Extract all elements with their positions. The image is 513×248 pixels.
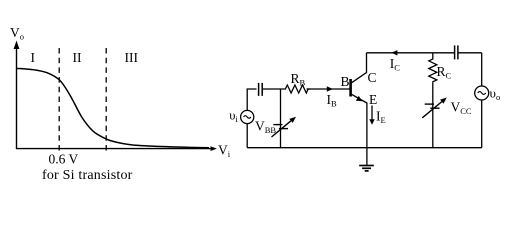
VCC variable source (offset plates + arrow)	[425, 103, 434, 105]
VBB variable source (offset plates + arrow)	[273, 124, 282, 126]
svg-text:C: C	[368, 70, 377, 85]
transistor Q1: emitter lead with arrow	[352, 94, 367, 103]
svg-text:III: III	[125, 50, 139, 65]
x-axis (Vi)	[16, 148, 211, 150]
source vo (AC source circle)	[475, 86, 489, 100]
wire: RC to VCC	[432, 83, 434, 148]
resistor RB (zigzag)	[283, 85, 310, 93]
dashed boundary line 2	[105, 48, 107, 152]
wire: vi source to top-left corner	[247, 89, 256, 110]
svg-text:B: B	[341, 74, 350, 89]
svg-text:0.6 V: 0.6 V	[49, 152, 79, 167]
VBB branch wire (node A down to bottom rail)	[280, 89, 282, 148]
coupling capacitor C2 (output)	[454, 45, 456, 59]
ground	[359, 166, 374, 171]
bottom rail	[247, 147, 482, 149]
wire: capacitor to top-right corner	[458, 52, 482, 54]
svg-text:E: E	[369, 92, 377, 107]
wire: emitter down through bottom rail to ground	[366, 103, 368, 166]
transistor Q1: base bar	[349, 79, 352, 97]
resistor RC branch: top stub	[432, 53, 434, 58]
svg-text:II: II	[73, 50, 82, 65]
wire: capacitor to node A (VBB branch)	[262, 88, 283, 90]
transistor Q1: collector lead	[352, 53, 367, 83]
dashed boundary line 1 (0.6 V)	[58, 48, 60, 151]
right branch wire (top corner down to vo source)	[481, 53, 483, 86]
wire: vo source down to bottom rail	[481, 100, 483, 148]
source vi (AC source circle)	[241, 110, 254, 123]
coupling capacitor C1 (input)	[258, 83, 260, 96]
resistor RC (vertical zigzag)	[429, 58, 437, 83]
IE arrow	[371, 106, 373, 121]
transfer-characteristic curve	[17, 69, 209, 148]
top wire: collector to RC node to output capacitor, with IC arrow	[367, 52, 455, 54]
y-axis (Vo)	[16, 46, 18, 149]
svg-text:for Si transistor: for Si transistor	[42, 168, 133, 183]
wire: vi source down to bottom rail	[246, 124, 248, 148]
svg-text:I: I	[31, 50, 36, 65]
wire: RB to base with IB arrow	[307, 88, 350, 90]
